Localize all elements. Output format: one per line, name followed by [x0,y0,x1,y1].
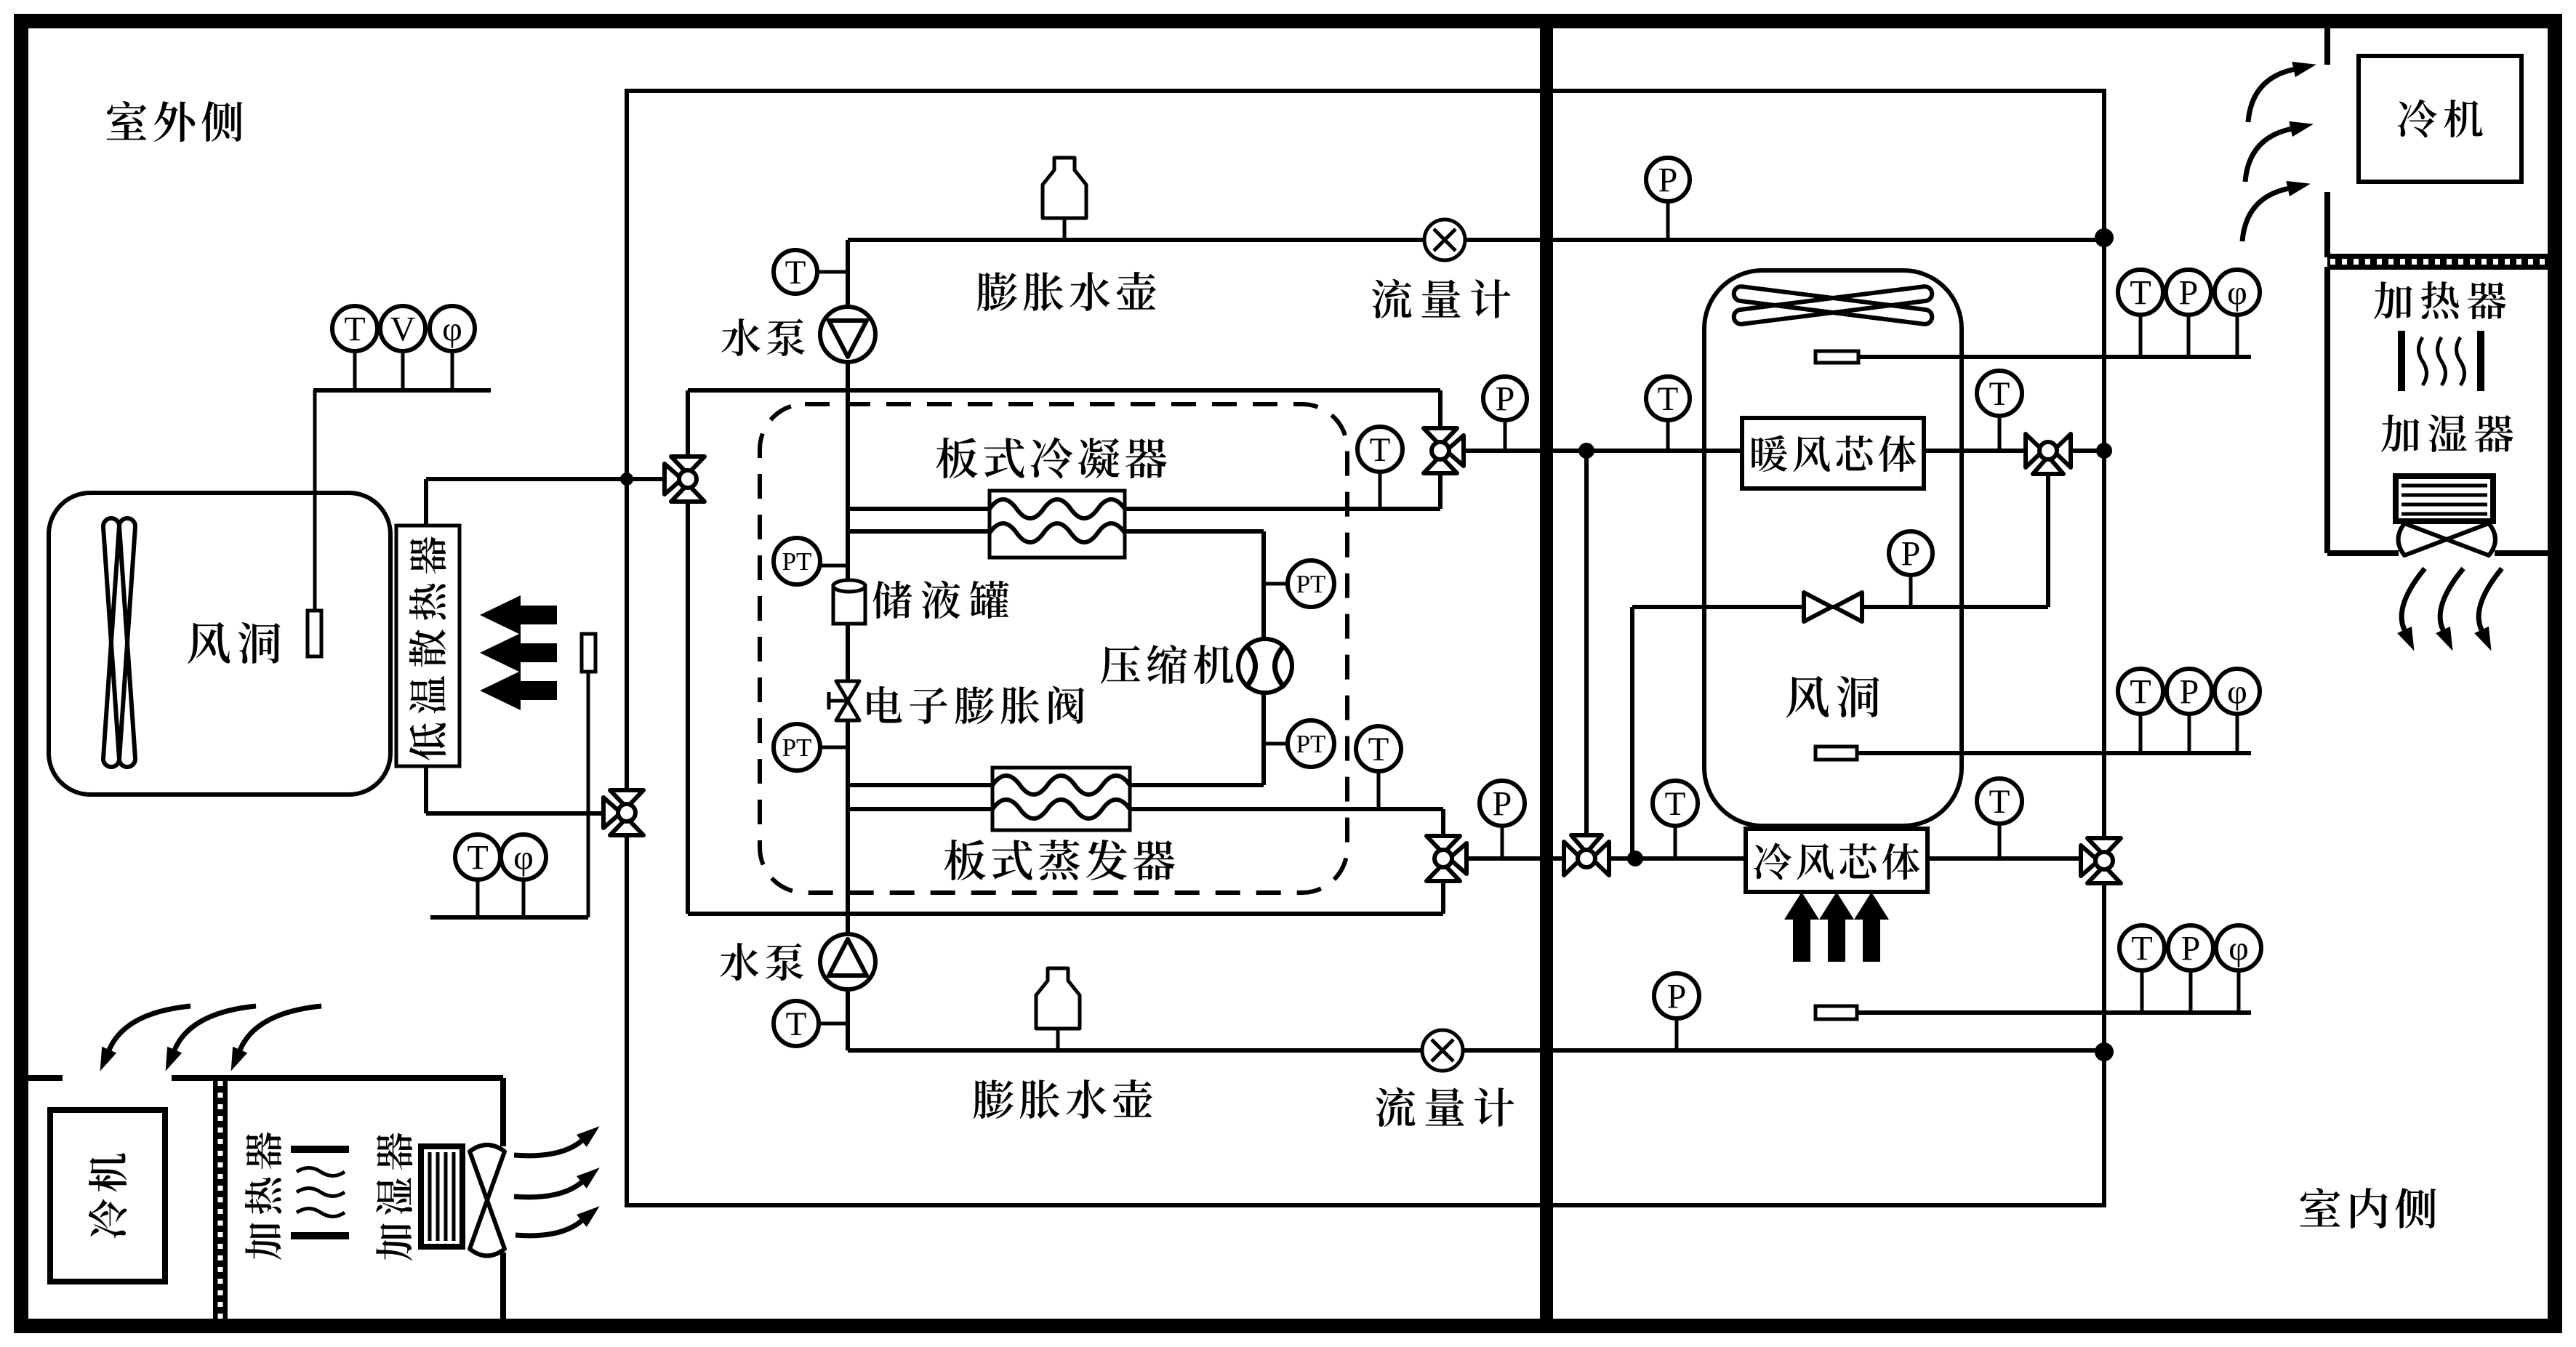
svg-text:φ: φ [513,839,534,877]
wire valve bottom riser [1441,809,1445,914]
three-way valve cooling mix [1564,842,1581,875]
svg-text:P: P [2179,274,2199,313]
sensor PT bottom-left [820,746,848,749]
three-way valve water loop left [671,457,705,474]
wire evaporator refrigerant in [848,783,992,787]
svg-text:P: P [1901,535,1921,574]
probe rod B behind radiator [582,634,595,672]
probe rod in tunnel L [313,390,317,611]
sensor P cooling line [1501,826,1504,859]
curved intake arrows top-right [2248,70,2294,122]
wire compressor suction [1261,693,1266,785]
sensor P top line [1666,201,1670,240]
junction dot top right [2095,228,2114,247]
svg-text:φ: φ [442,310,462,349]
humidifier symbol (right) [2396,476,2493,521]
label humidifier 加湿器 (bottom left) [376,1133,412,1260]
perforated separator bottom-left [213,1078,228,1319]
svg-text:T: T [1368,731,1389,768]
svg-text:φ: φ [2227,274,2247,313]
wire evaporator water out [1130,807,1443,811]
label plate condenser 板式冷凝器 [936,438,1167,479]
sensor T at pump 2 [819,1022,848,1026]
sensor T (radiator out) [476,880,480,917]
three-way valve heater supply [1424,428,1457,446]
wire heater-to-cooling riser [1584,451,1589,859]
sensor T evaporator out [1377,771,1381,809]
sensor T (tunnel L) [353,351,357,390]
svg-text:P: P [1496,380,1515,419]
wire bypass horizontal [1632,605,2048,609]
sensor T cooling out [1998,824,2002,859]
flow meter top [1424,220,1465,260]
sensor P air mid [2188,714,2191,753]
sensor P air bottom [2189,970,2193,1013]
label plate evaporator 板式蒸发器 [944,840,1175,880]
wire bypass riser left [1630,607,1634,859]
junction dot cooling line [1627,851,1643,866]
water pump 1 [820,307,875,362]
three-way valve cooling supply [1427,836,1460,853]
fan in chamber wall (right) [2327,550,2399,556]
sensor line T-phi (radiator out) [430,915,588,920]
receiver tank 储液罐 [833,586,865,624]
wire evaporator water in [848,807,992,811]
sensor V (tunnel L) [401,351,405,390]
svg-text:φ: φ [2227,673,2247,712]
sensor P bottom line [1675,1018,1679,1050]
water pump 2 [820,934,875,989]
probe rod mid tunnel R [1857,751,2251,755]
wire evaporator refrigerant out [1130,783,1264,787]
label heater 加热器 (bottom left) [245,1132,281,1260]
main unit enclosure box [627,91,2104,1205]
wire condenser refrigerant in [848,529,990,534]
label wind tunnel 风洞 (right) [1786,676,1879,717]
chamber wall top-right [2324,28,2330,65]
svg-text:PT: PT [1296,730,1326,758]
chiller box 冷机 (bottom left) [50,1110,165,1282]
label receiver 储液罐 [873,581,1009,619]
sensor T at pump 1 [817,270,848,274]
wire bypass riser right [2046,474,2050,607]
svg-text:P: P [1667,978,1687,1016]
wire water loop top [688,388,1440,393]
wire compressor discharge [1261,531,1266,640]
sensor phi air bottom [2237,970,2241,1013]
junction dot bottom right [2095,1042,2114,1061]
svg-text:T: T [1989,375,2010,413]
heater element symbol (bottom left) [291,1146,349,1153]
svg-text:PT: PT [782,733,812,762]
label wind tunnel 风洞 (left) [188,622,281,664]
wind tunnel R rounded box [1704,270,1962,826]
wire heater core line [1463,449,2104,453]
expansion bottle top [1063,218,1067,240]
label flow meter 流量计 (bottom) [1376,1087,1514,1127]
sensor phi (tunnel L) [451,351,454,390]
svg-text:P: P [2180,673,2199,712]
sensor T cooling in [1674,826,1677,859]
wire cooling core line [1466,856,2104,861]
junction dot heater line [1578,443,1594,459]
svg-text:T: T [2131,930,2152,968]
radiator top pipe [424,479,428,526]
svg-text:T: T [1370,431,1391,469]
thick wall divider indoor/outdoor [1540,28,1553,1319]
three-way valve on enclosure left edge [610,790,643,808]
sensor T heater out [1998,416,2002,451]
svg-text:PT: PT [782,547,812,576]
svg-text:PT: PT [1296,570,1326,598]
three-way valve cooling return [2087,838,2121,856]
label expansion kettle 膨胀水壶 (top) [977,272,1156,311]
label humidifier 加湿器 (right) [2381,414,2513,452]
svg-text:T: T [1989,783,2010,821]
wire top kettle line [848,238,2104,242]
curved outlet arrows bottom-right [2402,568,2425,630]
fan blades in wind tunnel L [103,518,135,767]
bold air arrows at radiator [480,595,557,635]
svg-text:T: T [1658,380,1679,418]
label compressor 压缩机 [1101,645,1234,684]
label water pump 水泵 (top) [721,318,805,356]
svg-text:V: V [390,310,416,349]
wind tunnel L rounded box [49,493,390,795]
label flow meter 流量计 (top) [1372,279,1510,318]
svg-text:T: T [786,1005,807,1043]
wire water loop left [686,390,690,914]
expansion bottle bottom [1056,1030,1060,1050]
svg-text:φ: φ [2228,930,2249,968]
sensor phi (radiator out) [522,880,526,917]
label water pump 水泵 (bottom) [720,943,803,981]
wire condenser water out [1125,507,1440,511]
svg-text:P: P [1658,161,1678,200]
electronic expansion valve [827,692,831,709]
flow meter bottom [1422,1030,1463,1071]
label heater 加热器 (right) [2374,281,2506,319]
sensor phi air top [2236,315,2239,357]
curved outlet arrows bottom-left chamber [514,1141,582,1155]
three-way valve heater return [2026,434,2043,467]
probe rod bottom air [1857,1010,2251,1015]
compressor [1238,639,1292,693]
junction dot radiator top line [620,473,633,486]
fan blades in wind tunnel R [1734,286,1933,324]
sensor T air bottom [2140,970,2144,1013]
wire valve top riser [1438,390,1443,509]
curved intake arrows bottom-left [109,1006,190,1050]
svg-text:P: P [1493,785,1512,824]
wire condenser refrigerant out [1125,529,1264,534]
svg-text:T: T [2130,274,2151,313]
wire bottom kettle line [848,1048,2104,1053]
sensor T condenser out [1379,472,1382,509]
sensor T heater in [1666,420,1670,451]
plate evaporator heat exchanger [992,768,1130,830]
chiller box 冷机 (top right) [2359,56,2521,182]
heater element symbol (right) [2398,331,2405,391]
sensor PT top-right [1264,582,1288,586]
label expansion kettle 膨胀水壶 (bottom) [974,1079,1152,1119]
sensor T air top [2139,315,2143,357]
label expansion valve 电子膨胀阀 [867,686,1084,724]
svg-text:T: T [785,254,806,291]
sensor T air mid [2139,714,2143,753]
svg-text:P: P [2181,930,2201,968]
sensor phi air mid [2236,714,2239,753]
perforated separator top-right [2327,254,2548,270]
sensor P air top [2187,315,2191,357]
sensor line TVphi (left) [313,388,491,393]
probe rod top tunnel R [1858,355,2251,359]
sensor P heater line [1504,420,1507,451]
sensor PT bottom-right [1264,742,1288,746]
label indoor side 室内侧 [2300,1188,2436,1229]
label outdoor side 室外侧 [107,101,243,142]
fan in chamber wall (bottom left) [500,1078,506,1146]
chamber wall bottom-left [28,1075,63,1081]
radiator bottom pipe [424,766,428,813]
sensor P bypass [1909,575,1913,607]
plate condenser heat exchanger [990,491,1125,558]
junction dot right edge heater [2096,443,2112,459]
svg-text:T: T [344,310,365,349]
svg-text:T: T [2130,673,2151,712]
valve bypass [1804,592,1831,622]
wire water loop bottom [688,912,1443,916]
bold air arrows below cooling core [1784,892,1819,962]
sensor PT top-left [820,564,848,568]
humidifier symbol (bottom left) [421,1146,462,1247]
heater core box 暖风芯体 [1742,418,1924,488]
svg-text:T: T [467,839,488,877]
wire condenser water in [848,507,990,511]
low-temp radiator box 低温散热器 [396,526,460,766]
cooling core box 冷风芯体 [1746,829,1927,892]
svg-text:T: T [1665,785,1686,823]
dashed refrigerant module box [760,404,1347,893]
wire pump column [846,240,850,1050]
